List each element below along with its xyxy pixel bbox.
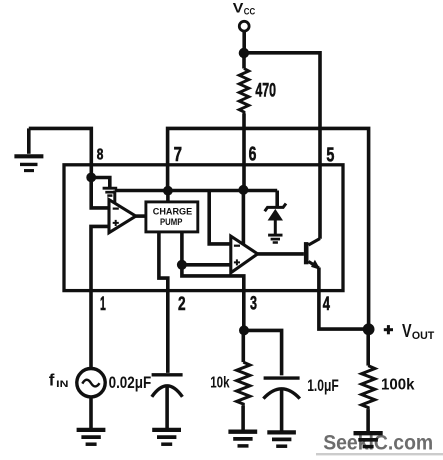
svg-text:10k: 10k (210, 374, 230, 391)
svg-text:1: 1 (100, 294, 106, 315)
wire zener branch down (275, 191, 279, 207)
U1 minus sign (113, 208, 119, 210)
svg-text:7: 7 (174, 144, 182, 166)
svg-text:100k: 100k (381, 376, 415, 393)
wire C2 stem (280, 389, 284, 431)
wire 100k top lead (366, 329, 370, 365)
ground inner (pin 8) (103, 187, 118, 190)
label + VOUT plus sign (384, 325, 393, 334)
wire U1 output to charge pump (136, 214, 146, 218)
wire pin 6 line (242, 114, 246, 191)
wire 10k top lead (242, 330, 246, 362)
U1 plus sign (113, 220, 119, 226)
charge pump box U2 (146, 202, 198, 232)
svg-text:OUT: OUT (412, 330, 435, 342)
transistor Q1 collector (309, 239, 321, 246)
capacitor C1 0.02uF top plate (152, 373, 183, 376)
op-amp U1 input comparator (109, 200, 136, 233)
Vcc terminal (239, 21, 249, 31)
node Vcc junction (239, 48, 249, 58)
svg-text:6: 6 (249, 144, 257, 166)
svg-text:4: 4 (323, 294, 330, 315)
wire T branch to op-amp U3 minus (209, 191, 231, 244)
wire Vcc to resistor (242, 54, 246, 69)
resistor R3 100k (362, 366, 375, 410)
wire pin 3 path (182, 265, 244, 331)
wire Vcc to pin 5 (244, 53, 320, 239)
fIN sine wave (82, 380, 99, 387)
ground C2 (267, 430, 296, 434)
Q1 emitter arrowhead (311, 260, 321, 270)
wire U1 top stub (113, 191, 116, 204)
wire pin3 node to cap C2 (244, 330, 282, 375)
wire pin 1 to op-amp U1 plus (91, 226, 110, 368)
resistor R1 470 (239, 69, 249, 114)
wire pin 4 / emitter to Vout (319, 268, 369, 330)
svg-text:CC: CC (244, 6, 256, 17)
wire 10k bottom lead (241, 406, 245, 431)
wire U3 output to transistor base (258, 252, 304, 256)
svg-text:470: 470 (255, 81, 276, 102)
svg-text:IN: IN (56, 379, 68, 390)
node pin 8 dot (86, 173, 96, 183)
source fIN circle (77, 369, 105, 397)
wire pin8 node to op-amp U1 minus (91, 178, 109, 208)
resistor R2 10k (237, 362, 250, 406)
wire C1 stem (165, 386, 169, 430)
wire ground to pin 8 (29, 128, 92, 177)
ground 10k (228, 430, 257, 434)
svg-text:2: 2 (178, 294, 186, 315)
svg-text:V: V (402, 320, 412, 341)
capacitor C2 1.0uF top plate (264, 376, 300, 379)
svg-text:f: f (49, 370, 55, 389)
node pin6/zener dot (238, 185, 248, 195)
U3 plus sign (234, 259, 240, 265)
svg-text:5: 5 (326, 145, 334, 167)
IC box outline (64, 165, 343, 291)
wire charge pump stub A to pin 2 (159, 232, 168, 373)
wire pin 7 up and top rail to Vout line (168, 128, 369, 329)
node Vout dot (363, 323, 375, 335)
wire zener stem (274, 221, 277, 235)
ground C1 (152, 428, 181, 432)
wire pin6 node down to U3 top edge (242, 190, 246, 244)
op-amp U3 output amp (231, 236, 258, 273)
capacitor C1 curved plate (152, 386, 183, 397)
wire charge pump stub B (180, 232, 184, 265)
svg-text:V: V (233, 0, 244, 15)
ground zener (268, 234, 282, 237)
node pin 3 dot (239, 325, 249, 335)
zener diode D1 cathode bar (265, 204, 286, 212)
capacitor C2 curved plate (263, 389, 299, 399)
wire pin8 to inner ground (91, 178, 110, 188)
wire 100k bottom lead (366, 409, 370, 433)
node U3 plus dot (177, 260, 187, 270)
svg-text:3: 3 (250, 294, 257, 315)
svg-text:8: 8 (97, 147, 104, 164)
wire charge pump top stub (166, 191, 170, 203)
transistor Q1 emitter (309, 262, 319, 269)
svg-text:0.02μF: 0.02μF (109, 373, 152, 392)
zener diode D1 anode triangle (268, 209, 283, 221)
ground 100k (354, 431, 383, 435)
wire net pin7 horizontal (115, 189, 277, 193)
wire Vcc stem (242, 31, 246, 54)
wire fIN bottom (89, 397, 93, 430)
watermark underline (316, 453, 443, 455)
ground main top-left (27, 128, 31, 153)
ground fIN (77, 428, 106, 432)
U3 minus sign (234, 245, 240, 247)
svg-text:1.0μF: 1.0μF (307, 377, 339, 395)
transistor Q1 base bar (304, 242, 309, 264)
svg-text:PUMP: PUMP (160, 216, 182, 227)
node charge pump top dot (163, 186, 173, 196)
wire to op-amp U3 plus (182, 263, 231, 267)
